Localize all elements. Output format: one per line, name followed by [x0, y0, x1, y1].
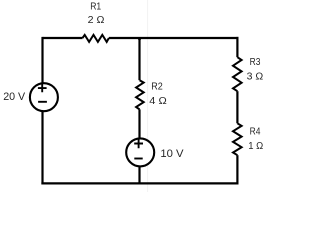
voltage source V2 10 V circle — [126, 138, 154, 166]
svg-text:2 Ω: 2 Ω — [88, 15, 105, 26]
wire left vertical upper — [41, 37, 43, 84]
resistor R4 — [233, 123, 242, 155]
wire left vertical lower — [41, 111, 43, 184]
wire right vertical upper — [236, 37, 238, 57]
wire right between R3 and R4 — [236, 91, 238, 123]
V2 plus sign — [134, 139, 143, 148]
svg-text:20 V: 20 V — [3, 91, 26, 103]
svg-text:3 Ω: 3 Ω — [247, 72, 264, 83]
svg-text:R4: R4 — [250, 126, 261, 137]
svg-text:1 Ω: 1 Ω — [248, 141, 263, 152]
V1 plus sign — [38, 84, 47, 93]
svg-text:R2: R2 — [151, 82, 163, 93]
resistor R3 — [233, 57, 242, 91]
svg-text:R1: R1 — [90, 2, 101, 13]
wire top from R1 to top-right corner — [109, 37, 239, 39]
node junction top middle — [138, 37, 141, 40]
wire middle vertical lower — [138, 166, 140, 184]
wire bottom — [41, 182, 238, 184]
resistor R2 — [136, 80, 144, 109]
V2 minus sign — [134, 158, 142, 160]
wire top from left corner to R1 — [43, 37, 83, 39]
wire middle between R2 and V2 — [138, 109, 140, 138]
resistor R1 — [83, 35, 109, 42]
V1 minus sign — [38, 101, 47, 103]
voltage source V1 20 V circle — [30, 83, 58, 111]
wire right vertical lower — [236, 155, 238, 184]
svg-text:10 V: 10 V — [160, 148, 184, 160]
svg-text:4 Ω: 4 Ω — [149, 96, 167, 107]
svg-text:R3: R3 — [250, 57, 261, 68]
wire middle vertical upper — [138, 38, 140, 80]
